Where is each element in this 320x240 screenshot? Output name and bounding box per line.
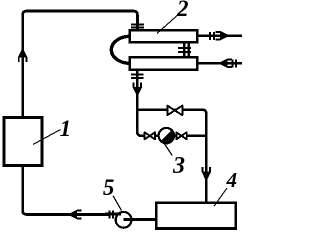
valve on top branch (167, 106, 182, 116)
svg-text:1: 1 (60, 116, 72, 141)
HX bottom outlet drop (137, 70, 144, 136)
HX bottom tube (shell) (130, 57, 198, 70)
arrow up on left riser (18, 48, 28, 62)
bypass top branch wire (137, 110, 206, 203)
svg-text:3: 3 (172, 153, 185, 179)
leader line for label 2 (157, 13, 180, 34)
arrow down on HX outlet (133, 83, 143, 97)
svg-text:5: 5 (103, 175, 115, 200)
heat exchanger U-bend (111, 36, 130, 63)
HX inlet flange bars (131, 23, 144, 25)
HX connector flange bars (178, 47, 191, 49)
HX bottom inlet flange bars (231, 59, 233, 67)
wire main loop: left riser, top run, HX inlet drop (23, 11, 138, 215)
valve right of pump 3 (176, 132, 186, 139)
arrow left on bottom inlet (218, 59, 232, 69)
HX bottom inlet line right (197, 62, 242, 64)
pump 5 outlet wire to box 4 (124, 218, 157, 221)
HX right connector pipes (183, 41, 186, 58)
leader line for label 5 (113, 196, 121, 211)
box 1 (apparatus) (4, 118, 42, 166)
leader line for label 4 (214, 188, 227, 206)
HX top outlet line right (197, 35, 242, 37)
bypass lower branch wire (145, 135, 207, 138)
leader line for label 3 (164, 143, 173, 156)
arrow down into box 4 (202, 167, 212, 181)
pump 5 inlet stub (105, 213, 121, 216)
HX top tube (shell) (130, 30, 198, 42)
arrow right on top outlet (216, 31, 230, 41)
svg-text:4: 4 (226, 168, 238, 192)
svg-text:2: 2 (176, 0, 189, 21)
leader line for label 1 (33, 130, 61, 145)
pump 3 (circle with filled half) (159, 128, 174, 143)
HX outlet flange bars (131, 74, 144, 76)
HX top outlet flange bars (209, 32, 211, 40)
pump 5 inlet flange bars (109, 210, 111, 218)
arrow left on bottom run (67, 210, 81, 220)
box 4 (tank) (156, 203, 236, 229)
pump 5 circle (116, 212, 132, 228)
valve left of pump 3 (145, 132, 155, 139)
